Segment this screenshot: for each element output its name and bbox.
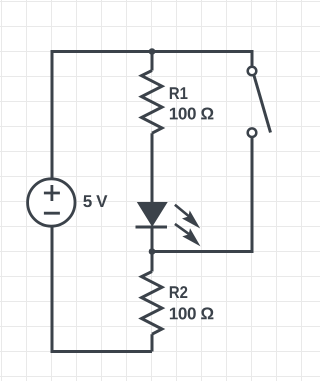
wire bottom-left loop: left down, bottom across bbox=[52, 228, 152, 352]
wire R1 to LED bbox=[151, 133, 154, 204]
switch SW1 blade bbox=[254, 76, 271, 133]
label R2 value 100 Ω bbox=[170, 307, 214, 319]
node junction dot bottom bbox=[149, 248, 156, 255]
LED D1 triangle bbox=[140, 204, 166, 225]
voltage source V1 circle bbox=[28, 179, 75, 226]
wire switch to bottom node bbox=[152, 138, 252, 252]
label 5 V bbox=[83, 195, 107, 207]
wire middle stub from top node to R1 bbox=[151, 52, 154, 71]
resistor R2 bbox=[142, 272, 163, 335]
wire bottom node to R2 bbox=[151, 252, 154, 272]
LED light arrow 2 bbox=[175, 224, 201, 247]
label R1 value 100 Ω bbox=[170, 108, 214, 120]
voltage source minus sign bbox=[44, 212, 60, 215]
wire R2 to bottom wire bbox=[151, 334, 154, 351]
LED D1 cathode bar bbox=[136, 226, 168, 229]
node junction dot top bbox=[149, 48, 156, 55]
LED light arrow 1 bbox=[175, 205, 200, 229]
wire top-left loop: left up, top across, right down to switch bbox=[52, 52, 252, 178]
label R2 bbox=[170, 286, 188, 298]
switch SW1 top contact circle bbox=[248, 67, 257, 76]
label R1 bbox=[170, 87, 188, 99]
voltage source plus sign bbox=[44, 192, 60, 195]
resistor R1 bbox=[142, 71, 163, 134]
wire LED to bottom node bbox=[151, 227, 154, 252]
switch SW1 bottom contact circle bbox=[248, 128, 257, 137]
